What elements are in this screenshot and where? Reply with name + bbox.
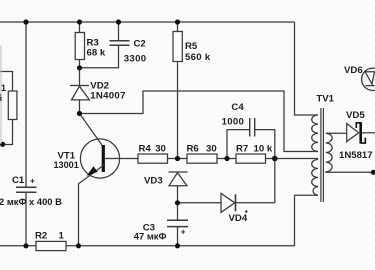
svg-text:3300: 3300 <box>124 53 147 64</box>
diode VD3 <box>169 171 188 173</box>
capacitor C4 <box>249 118 251 137</box>
wire left column lower (C1 to rail) <box>25 193 27 246</box>
node bottom rail at emitter <box>76 243 81 248</box>
node collector junction <box>77 111 82 116</box>
resistor R2 <box>36 241 66 250</box>
wire VD3 node to VD4 <box>178 202 222 204</box>
wire VD3 bottom to node <box>177 186 179 203</box>
wire top supply rail <box>0 21 295 23</box>
transformer TV1 primary winding section 1 <box>312 115 318 152</box>
transformer TV1 primary winding section 2 <box>312 160 318 196</box>
wire bottom rail right segment <box>66 245 295 247</box>
svg-text:C1: C1 <box>12 175 25 186</box>
svg-text:R6: R6 <box>187 144 199 155</box>
node R3/VD2/C2 junction <box>77 65 82 70</box>
svg-text:R2: R2 <box>35 231 47 242</box>
wire C3 to bottom rail <box>177 227 179 246</box>
diode VD2 <box>70 85 89 87</box>
wire bottom rail left segment <box>0 245 36 247</box>
svg-text:1: 1 <box>1 83 6 93</box>
node R4/R6/VD3/R5 junction <box>175 156 180 161</box>
node R7/C4/VD4 junction <box>272 156 278 162</box>
node top rail at R3 <box>77 19 82 24</box>
svg-text:2 мкФ x 400 В: 2 мкФ x 400 В <box>0 196 62 207</box>
svg-text:30: 30 <box>155 144 166 155</box>
node output terminal blob <box>371 170 375 175</box>
svg-text:VD5: VD5 <box>346 110 365 121</box>
wire TV1 secondary bottom to right edge <box>326 171 372 174</box>
transformer TV1 secondary winding <box>326 133 332 172</box>
diode VD4 <box>221 193 235 212</box>
capacitor C4 right wire down through node to VD4 wire <box>255 130 275 203</box>
node R6/R7/C4 junction <box>224 156 229 161</box>
wire R3 bottom to VD2 <box>79 60 81 86</box>
svg-text:1N4007: 1N4007 <box>90 90 125 101</box>
resistor R4 <box>138 154 168 163</box>
svg-text:10 k: 10 k <box>254 144 273 155</box>
svg-text:13001: 13001 <box>54 160 79 170</box>
node top rail at R5 <box>175 19 180 24</box>
resistor R1 <box>8 91 17 120</box>
capacitor C4 left wire <box>227 130 250 159</box>
svg-text:C4: C4 <box>231 102 244 113</box>
resistor R6 <box>187 154 217 163</box>
transformer TV1 core <box>320 108 322 202</box>
wire R1 bottom to left edge <box>3 120 13 145</box>
wire R4 to node <box>168 158 188 160</box>
svg-text:30: 30 <box>206 144 217 155</box>
wire R5 bottom down to mid row (crossover, no dot) <box>177 62 179 159</box>
wire VD5 output to right edge <box>362 132 375 134</box>
wire R7 to TV1 primary section2 top <box>266 158 319 160</box>
capacitor C3 top wire <box>177 203 179 220</box>
wire VT1 base to R4 <box>105 158 138 160</box>
svg-text:C2: C2 <box>134 39 146 50</box>
svg-text:560 k: 560 k <box>185 52 211 63</box>
node VD3/VD4/C3 junction <box>175 200 180 205</box>
svg-text:+: + <box>30 177 35 186</box>
wire collector node to TV1 primary section1 bottom <box>80 91 319 152</box>
node top rail at C1 column <box>23 19 28 24</box>
capacitor C1 <box>16 186 37 188</box>
node bottom rail at C3 <box>175 243 180 248</box>
wire TV1 secondary top to VD5 <box>326 132 347 134</box>
wire TV1 primary bottom return to bottom rail <box>295 195 319 246</box>
svg-text:VD6: VD6 <box>344 65 363 76</box>
resistor R3 <box>75 33 84 60</box>
svg-text:VD4: VD4 <box>229 213 248 224</box>
wire R6 to node <box>217 158 236 160</box>
resistor R7 <box>236 154 266 163</box>
node top rail at C2 <box>116 19 121 24</box>
wire VD2 to collector node <box>79 100 81 114</box>
svg-text:R5: R5 <box>185 41 198 52</box>
wire top rail corner down to TV1 primary top <box>295 22 319 115</box>
wire C2 top <box>118 22 120 41</box>
svg-text:1: 1 <box>59 231 65 242</box>
capacitor C2 <box>110 40 130 42</box>
node bottom rail at C1 column <box>23 243 28 248</box>
wire R5 top <box>177 22 179 32</box>
svg-text:R4: R4 <box>139 144 152 155</box>
wire R3 top <box>79 22 81 33</box>
mark VD4 asterisk <box>245 210 247 212</box>
svg-text:1N5817: 1N5817 <box>339 150 373 161</box>
svg-text:+: + <box>181 228 186 237</box>
resistor R5 <box>173 32 182 62</box>
wire C2 bottom to R3/VD2 junction <box>80 45 119 68</box>
svg-text:1000: 1000 <box>222 117 245 128</box>
svg-text:47 мкФ: 47 мкФ <box>134 230 167 241</box>
svg-text:68 k: 68 k <box>87 48 106 59</box>
wire VD4 to C4 column <box>236 202 275 204</box>
node left edge junction <box>0 142 5 147</box>
wire R1 top stub <box>0 72 13 92</box>
transistor VT1 <box>80 139 119 178</box>
svg-text:5: 5 <box>0 93 2 103</box>
capacitor C3 <box>167 219 188 221</box>
wire left column upper (to C1) <box>25 22 27 187</box>
svg-text:VD3: VD3 <box>144 176 163 187</box>
svg-text:R7: R7 <box>236 144 248 155</box>
svg-text:TV1: TV1 <box>316 94 334 105</box>
diode VD5 schottky <box>347 123 359 141</box>
wire faint cropped left edge line <box>0 45 2 144</box>
LED VD6 <box>362 68 375 90</box>
